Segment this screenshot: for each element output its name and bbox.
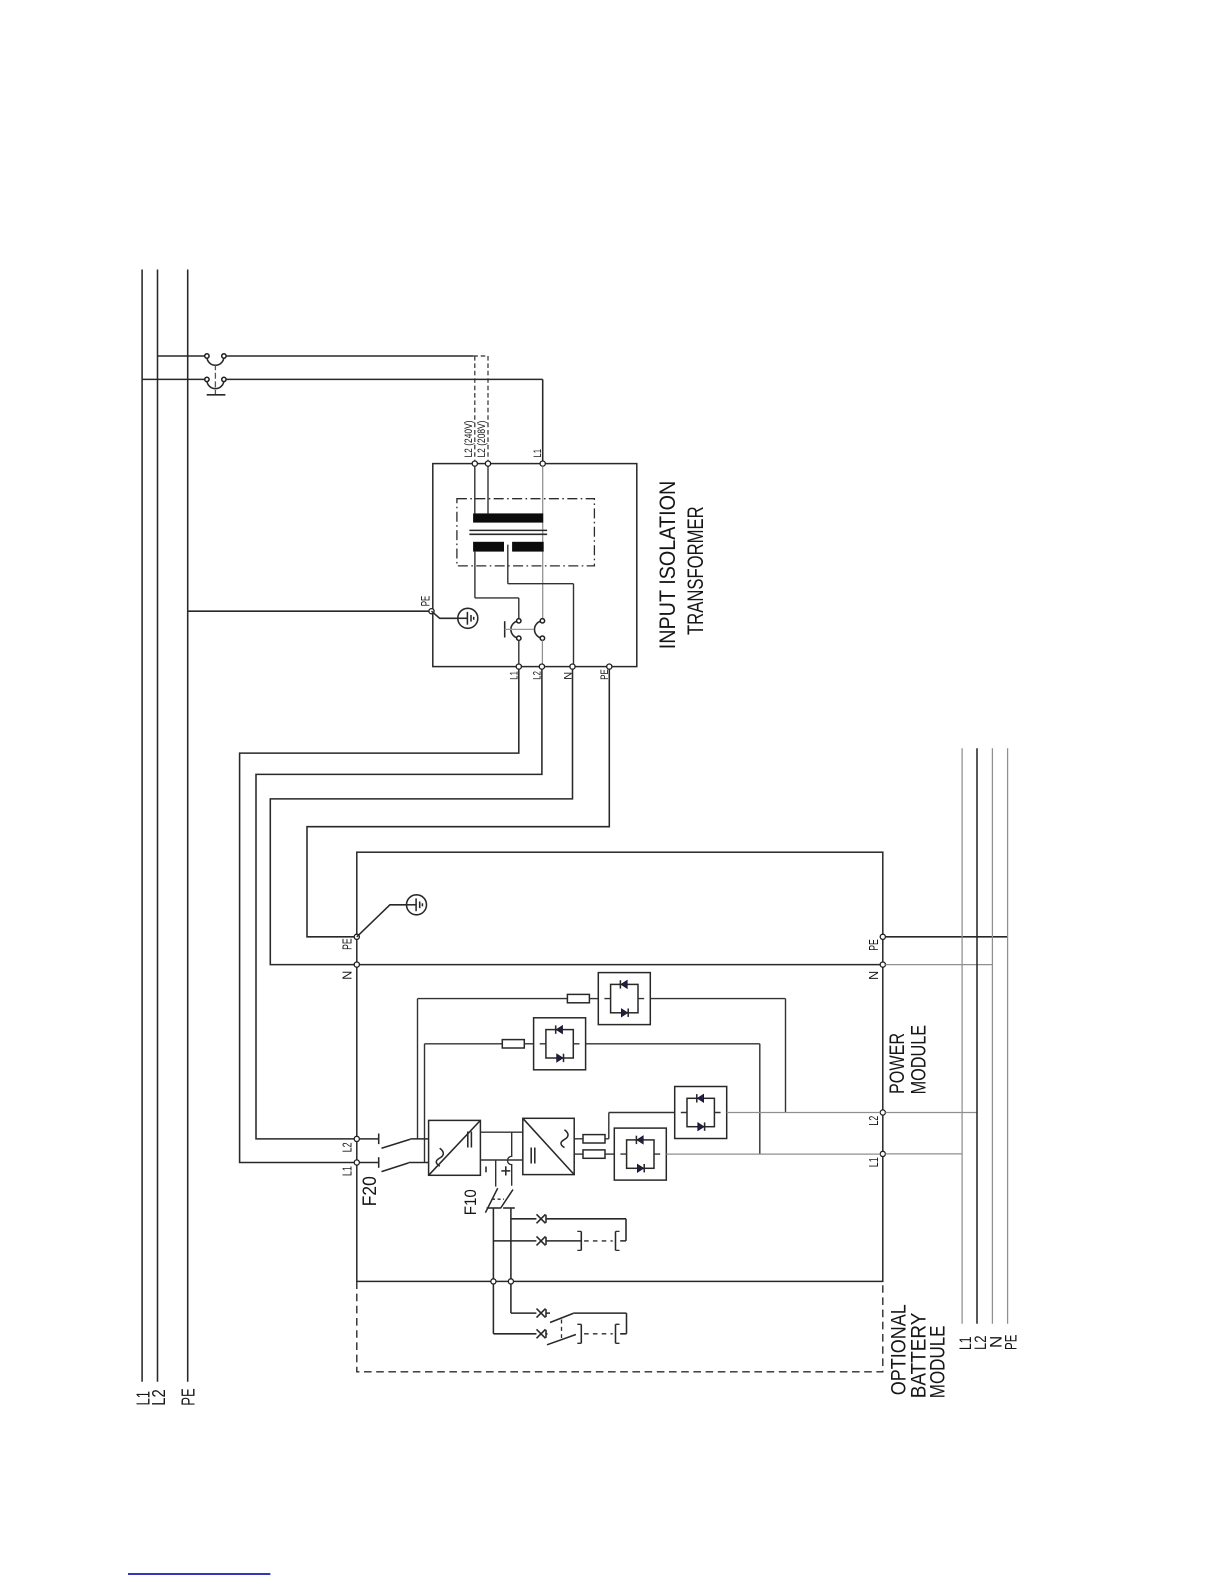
terminal L2 on T1 bottom [539,664,544,669]
transformer T1 secondary winding bar b [512,542,544,552]
wire DC link negative row [480,1159,522,1161]
terminal L1 power module left [354,1160,359,1165]
transformer T1 primary winding bar [473,513,543,522]
wire PE to ground (power module) [357,905,407,937]
wire N out to output rail [885,964,992,966]
SCR module C anti-parallel pair [620,1136,660,1173]
wire L1 feed to input connector [142,378,205,380]
wire L1 from connector to transformer [226,379,543,461]
wire dashed jumper L2 (240V)/(208V) selection [473,355,488,357]
wire F3 up to SCR module D [605,1113,675,1139]
wire L1 supply rail (left) [141,270,143,1382]
svg-text:MODULE: MODULE [926,1326,950,1399]
svg-text:TRANSFORMER: TRANSFORMER [683,506,708,635]
wire PE output rail (right) [1007,748,1009,1323]
wire N row across power module [359,964,880,966]
breaker F10 contact bar plus [503,1207,515,1209]
switch mechanical link (optional battery) [561,1320,563,1339]
breaker F20 pole L2 contact tick [378,1134,380,1145]
breaker F10 contact bar minus [487,1207,501,1209]
terminal L1 on T1 bottom [516,664,521,669]
wire F4 to SCR module C [605,1153,614,1155]
terminal PE on T1 left [429,609,434,614]
wire PE to ground inside T1 [432,611,459,618]
terminal L2 (240V) on T1 top [472,461,477,466]
wire T1 PE out stair to power module [307,669,609,937]
wire PE rail to T1 [188,610,429,612]
wire T1 N out stair to power module [270,669,572,964]
wire minus into optional battery module [492,1284,494,1334]
svg-text:F10: F10 [461,1189,480,1215]
svg-text:L2: L2 [867,1116,881,1126]
wire L2 output rail (right) [976,748,978,1323]
svg-text:PE: PE [867,939,881,951]
svg-text:PE: PE [421,596,433,607]
terminal PE power module right [880,934,885,939]
wire plus into optional battery module [510,1284,512,1313]
transformer core dash-dot boundary [457,499,595,566]
svg-text:L1: L1 [867,1157,881,1167]
wire F10 minus down to battery junction [492,1208,494,1279]
breaker F20 pole L1 stub [359,1162,378,1164]
wire T1 L2 out stair to power module [256,669,542,1139]
inverter U2 box [523,1118,574,1174]
terminal L2 power module left [354,1136,359,1141]
terminal PE power module left [354,934,359,939]
transformer T1 enclosure box [433,464,637,667]
connector J1 mechanical link [214,364,216,394]
svg-text:L2: L2 [148,1389,169,1406]
terminal PE on T1 bottom [607,664,612,669]
power module enclosure box [357,852,883,1281]
wire F2 to SCR module B [524,1043,533,1045]
label minus [485,1167,487,1173]
wire DC negative tap [495,1160,497,1187]
SCR module A box [598,973,650,1025]
fuse F3 [583,1135,605,1143]
breaker F10 pole minus blade [485,1188,497,1213]
wire F10 plus down to battery junction [510,1208,512,1279]
breaker F20 pole L2 stub [359,1138,378,1140]
svg-text:L1: L1 [340,1166,354,1176]
wire primary lead 208V [487,466,489,513]
ground symbol (power module) [407,895,427,915]
wire F20 L2 to rectifier [410,1138,428,1140]
svg-text:PE: PE [340,938,354,950]
wire N output rail (right) [991,748,993,1323]
terminal N power module left [354,962,359,967]
optional battery module dashed boundary [357,1281,883,1371]
wire L2 feed to input connector [158,355,205,357]
svg-text:PE: PE [1002,1335,1021,1351]
terminal L1 on T1 top [540,461,545,466]
SCR module D box [675,1087,727,1139]
wire L1 output rail (right) [961,748,963,1323]
connector J1 key bar [207,394,226,396]
bypass fuse F2 wire from L1 input [425,1044,503,1163]
switch blade optional negative [547,1335,576,1345]
svg-text:F20: F20 [360,1176,381,1206]
wire PE supply rail (left) [187,270,189,1382]
terminal N on T1 bottom [570,664,575,669]
SCR module B box [534,1018,586,1070]
wire primary lead 240V [474,466,476,513]
X disconnect optional negative [537,1329,547,1338]
svg-text:PE: PE [177,1388,198,1406]
label plus [501,1166,510,1175]
internal battery B1 [577,1231,619,1250]
terminal N power module right [880,962,885,967]
svg-text:L1: L1 [532,449,544,458]
rectifier U1 DC symbol [468,1132,472,1148]
connector J1 pole 2 [205,377,226,389]
wire SCR module A to L2 output [650,999,785,1113]
breaker F10 pole plus blade [500,1190,513,1209]
wire DC link positive row [480,1131,522,1133]
connector J2 pole 1 [511,619,521,641]
wire J2 pole2 to L2 out [541,640,543,664]
fuse F4 [583,1150,605,1158]
switch blade optional positive [550,1313,573,1322]
wire L2 from connector to transformer drops [226,355,473,357]
transformer T1 secondary winding bar a [473,542,504,552]
wire L1 primary lead (through) [542,466,544,618]
wire T1 L1 out stair to power module [240,669,519,1162]
wire optional battery positive line [511,1313,627,1334]
wire L2 supply rail (left) [157,270,159,1382]
terminal L2 power module right [880,1110,885,1115]
SCR module A anti-parallel pair [604,980,644,1017]
SCR module C box [614,1128,666,1180]
wire DC positive tap with hop [508,1132,512,1186]
ground symbol (T1) [458,608,478,628]
terminal L1 power module right [880,1151,885,1156]
svg-text:L2 (208V): L2 (208V) [476,421,488,458]
inverter U2 DC symbol [531,1148,535,1164]
connector J2 mechanical link [505,628,534,630]
wire secondary a to connector J2 [475,552,519,619]
terminal L2 (208V) on T1 top [485,461,490,466]
wire F1 to SCR module A [589,998,598,1000]
svg-text:N: N [867,971,881,980]
junction connector plus to battery module [508,1279,513,1284]
fuse F2 [502,1040,524,1048]
wire inverter out top to fuse F3 [574,1138,583,1140]
wire F20 L1 to rectifier [409,1162,429,1164]
wire center tap to N [508,545,574,664]
bypass fuse F1 wire from L2 input [418,999,568,1139]
wire inverter out bottom to fuse F4 [574,1153,583,1155]
wire SCR module D to L2 output row [727,1112,881,1114]
SCR module D anti-parallel pair [681,1094,721,1131]
wire dashed drop to L2 (240V) terminal [474,356,476,461]
optional battery B2 [577,1324,619,1343]
junction connector minus to battery module [491,1279,496,1284]
breaker F20 pole L2 blade [382,1139,411,1148]
rectifier/charger U1 box [429,1120,481,1175]
footer link line [128,1573,270,1575]
wire SCR module C to L1 output row [666,1153,880,1155]
svg-text:N: N [340,971,354,980]
X disconnect optional positive [537,1309,547,1318]
wire SCR module B to L1 output [586,1044,760,1154]
inverter U2 AC symbol [561,1130,568,1148]
wire J2 pole1 to L1 out [518,640,520,664]
svg-text:L2: L2 [340,1142,354,1152]
svg-text:INPUT ISOLATION: INPUT ISOLATION [655,481,680,650]
connector J2 pole 2 [535,619,545,641]
X disconnect battery positive [537,1214,547,1223]
wire internal battery positive line [511,1219,626,1241]
wire internal battery negative line [493,1240,626,1242]
connector J1 pole 1 [205,354,226,366]
X disconnect battery negative [537,1236,547,1245]
svg-text:MODULE: MODULE [907,1025,931,1095]
SCR module B anti-parallel pair [540,1025,580,1062]
wire optional battery negative line [493,1333,626,1335]
fuse F1 [567,994,589,1002]
rectifier U1 diagonal [429,1120,481,1175]
connector J2 key bar [504,621,506,637]
wire PE out to output rail [885,936,1007,938]
rectifier U1 AC symbol [436,1148,443,1166]
wire L2 out to output rail [885,1112,977,1114]
svg-text:L2 (240V): L2 (240V) [463,421,475,458]
breaker F10 mechanical link [492,1198,504,1200]
wire dashed drop to L2 (208V) terminal [487,356,489,461]
breaker F20 pole L1 blade [382,1163,409,1172]
breaker F20 pole L1 contact tick [378,1157,380,1168]
wire L1 out to output rail [885,1153,962,1155]
inverter U2 diagonal [523,1118,574,1174]
transformer T1 core lines [469,530,547,534]
